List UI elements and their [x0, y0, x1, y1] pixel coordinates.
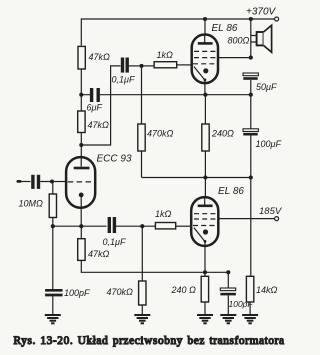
svg-text:47kΩ: 47kΩ: [88, 120, 110, 130]
node speaker branch on rail: [249, 17, 253, 21]
capacitor 6μF: [81, 94, 110, 96]
node ECC anode: [79, 143, 83, 147]
node V1 cathode: [203, 93, 207, 97]
ground under input filter: [45, 315, 61, 323]
resistor 1kΩ (upper grid stopper): [154, 62, 177, 68]
capacitor 100pF (left, input filter): [52, 226, 54, 289]
V2 anode: [204, 197, 206, 205]
resistor 47kΩ (second left): [80, 95, 82, 111]
terminal 185V: [275, 217, 279, 221]
svg-text:1kΩ: 1kΩ: [157, 50, 174, 60]
wire V1 screen to rail: [219, 57, 251, 59]
resistor 470kΩ (lower): [141, 226, 143, 281]
node row C to right rail: [249, 175, 253, 179]
wire row E: [81, 260, 228, 272]
ECC grid (dashed): [68, 181, 96, 183]
svg-text:185V: 185V: [259, 206, 283, 217]
resistor 14kΩ: [246, 276, 253, 302]
wire 47k top-left to node: [80, 69, 82, 95]
svg-text:1kΩ: 1kΩ: [155, 209, 172, 219]
svg-text:10MΩ: 10MΩ: [19, 199, 44, 209]
node V2 anode: [203, 175, 207, 179]
svg-text:47kΩ: 47kΩ: [89, 52, 111, 62]
svg-text:EL 86: EL 86: [212, 23, 238, 34]
wire row D (V2 grid row): [53, 225, 107, 227]
resistor 470kΩ (upper): [141, 66, 143, 124]
terminal +370V: [275, 17, 279, 21]
wire output row B: [111, 94, 251, 96]
wire 1k to V1 grid: [177, 64, 192, 66]
ground under 240: [197, 315, 213, 323]
svg-text:14kΩ: 14kΩ: [256, 285, 278, 295]
wire top supply rail: [81, 19, 274, 46]
capacitor 50μF (electrolytic): [243, 73, 258, 76]
resistor 240Ω (upper): [204, 95, 206, 124]
V1 grids (dashed): [194, 50, 216, 52]
V1 anode: [204, 35, 206, 43]
node row B to electrolytic rail: [249, 93, 253, 97]
svg-text:240 Ω: 240 Ω: [171, 285, 197, 295]
wire anode node to coupling cap: [81, 66, 120, 145]
svg-text:800Ω: 800Ω: [228, 36, 250, 46]
ground under 100pF right: [220, 315, 236, 323]
node V1 grid junction: [139, 64, 143, 68]
input terminal: [17, 180, 22, 183]
ECC anode: [80, 157, 82, 167]
capacitor 100μF (electrolytic): [250, 80, 252, 178]
svg-text:+370V: +370V: [246, 7, 277, 18]
node V2 grid junction: [140, 224, 144, 228]
wire right rail to 14k: [250, 178, 252, 277]
node ECC cathode row D: [79, 224, 83, 228]
resistor 240Ω (V2 cathode): [201, 276, 208, 302]
svg-text:0,1μF: 0,1μF: [103, 237, 126, 247]
node V2 cathode row E: [203, 270, 207, 274]
ECC cathode: [79, 193, 84, 198]
svg-text:6μF: 6μF: [87, 103, 103, 113]
node anode V1 to rail: [203, 17, 207, 21]
capacitor input coupling: [31, 175, 34, 189]
resistor 47kΩ (ECC cathode): [80, 226, 82, 239]
V2 cathode: [203, 229, 208, 234]
svg-text:470kΩ: 470kΩ: [107, 287, 134, 297]
resistor 1kΩ (lower grid stopper): [155, 223, 175, 229]
svg-text:240Ω: 240Ω: [211, 129, 234, 139]
capacitor 0,1μF (lower coupling): [108, 217, 111, 233]
wire grid node to 1k: [142, 65, 155, 67]
svg-text:EL 86: EL 86: [218, 186, 244, 197]
speaker 800Ω: [250, 19, 252, 58]
V1 cathode: [203, 68, 208, 73]
ground under 470k: [134, 315, 150, 323]
svg-text:470kΩ: 470kΩ: [147, 129, 174, 139]
node 100pF row E: [226, 270, 230, 274]
svg-text:0,1μF: 0,1μF: [112, 75, 135, 85]
resistor 47kΩ (top left): [78, 46, 85, 69]
node row D left: [51, 224, 55, 228]
svg-text:100pF: 100pF: [64, 288, 90, 298]
wire V2 screen to 185V: [219, 218, 275, 220]
svg-text:50μF: 50μF: [256, 82, 277, 92]
wire input: [21, 181, 31, 183]
svg-text:Rys. 13-20. Układ przeciwsobny: Rys. 13-20. Układ przeciwsobny bez trans…: [14, 335, 285, 347]
svg-text:ECC 93: ECC 93: [97, 154, 132, 165]
capacitor 0,1μF (upper coupling): [121, 58, 124, 73]
capacitor 100pF (right): [227, 272, 229, 288]
resistor 10MΩ: [52, 182, 54, 195]
wire 47k to anode node: [80, 133, 82, 146]
wire row C (V2 anode rail): [142, 177, 251, 179]
svg-text:47kΩ: 47kΩ: [88, 249, 110, 259]
node bootstrap junction: [79, 93, 83, 97]
node grid ECC: [50, 179, 54, 183]
V2 grids (dashed): [194, 213, 216, 215]
svg-text:100μF: 100μF: [256, 139, 282, 149]
ground under 14k: [242, 315, 258, 323]
